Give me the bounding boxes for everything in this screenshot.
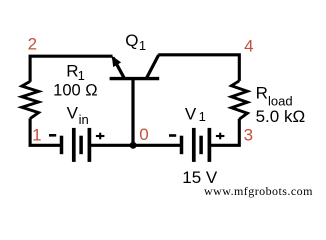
transistor Q1 emitter line <box>113 58 125 79</box>
svg-text:R: R <box>256 84 268 103</box>
svg-text:4: 4 <box>244 37 253 56</box>
resistor R1 zigzag <box>22 81 39 118</box>
resistor Rload zigzag <box>231 81 247 119</box>
svg-text:1: 1 <box>32 126 41 145</box>
battery V1 plus sign <box>216 135 225 137</box>
svg-text:www.mfgrobots.com: www.mfgrobots.com <box>204 184 313 198</box>
battery V1 plates <box>180 136 184 155</box>
svg-text:1: 1 <box>199 109 206 124</box>
svg-text:V: V <box>67 103 79 122</box>
wire: Q1 base lead vertical <box>131 79 134 147</box>
svg-text:Q: Q <box>125 31 138 50</box>
svg-text:1: 1 <box>139 38 146 53</box>
node 0 junction dot <box>130 142 137 149</box>
battery Vin minus sign <box>49 134 56 137</box>
wire: node 2 top-left horizontal + left vertical upper <box>30 56 112 81</box>
transistor Q1 emitter arrowhead <box>112 56 121 67</box>
battery Vin plates <box>60 136 64 155</box>
svg-text:100 Ω: 100 Ω <box>53 81 97 99</box>
svg-text:2: 2 <box>28 34 37 53</box>
svg-text:5.0 kΩ: 5.0 kΩ <box>256 107 306 126</box>
svg-text:in: in <box>79 112 89 127</box>
battery V1 minus sign <box>169 134 176 137</box>
wire: bottom middle (Vin battery to V1 battery through node 0) <box>89 144 181 147</box>
battery Vin plus sign <box>96 135 105 137</box>
svg-text:V: V <box>185 104 197 123</box>
svg-text:3: 3 <box>244 126 253 145</box>
wire: left vertical lower + bottom-left horizontal to Vin battery <box>30 118 61 145</box>
transistor Q1 collector line <box>146 55 158 79</box>
wire: right vertical lower + bottom-right horizontal to V1 battery <box>209 119 239 146</box>
svg-text:0: 0 <box>139 125 148 144</box>
wire: top-right horizontal (Q1 collector to node 4) + right vertical upper <box>158 55 239 81</box>
transistor Q1 base bar <box>110 77 160 80</box>
